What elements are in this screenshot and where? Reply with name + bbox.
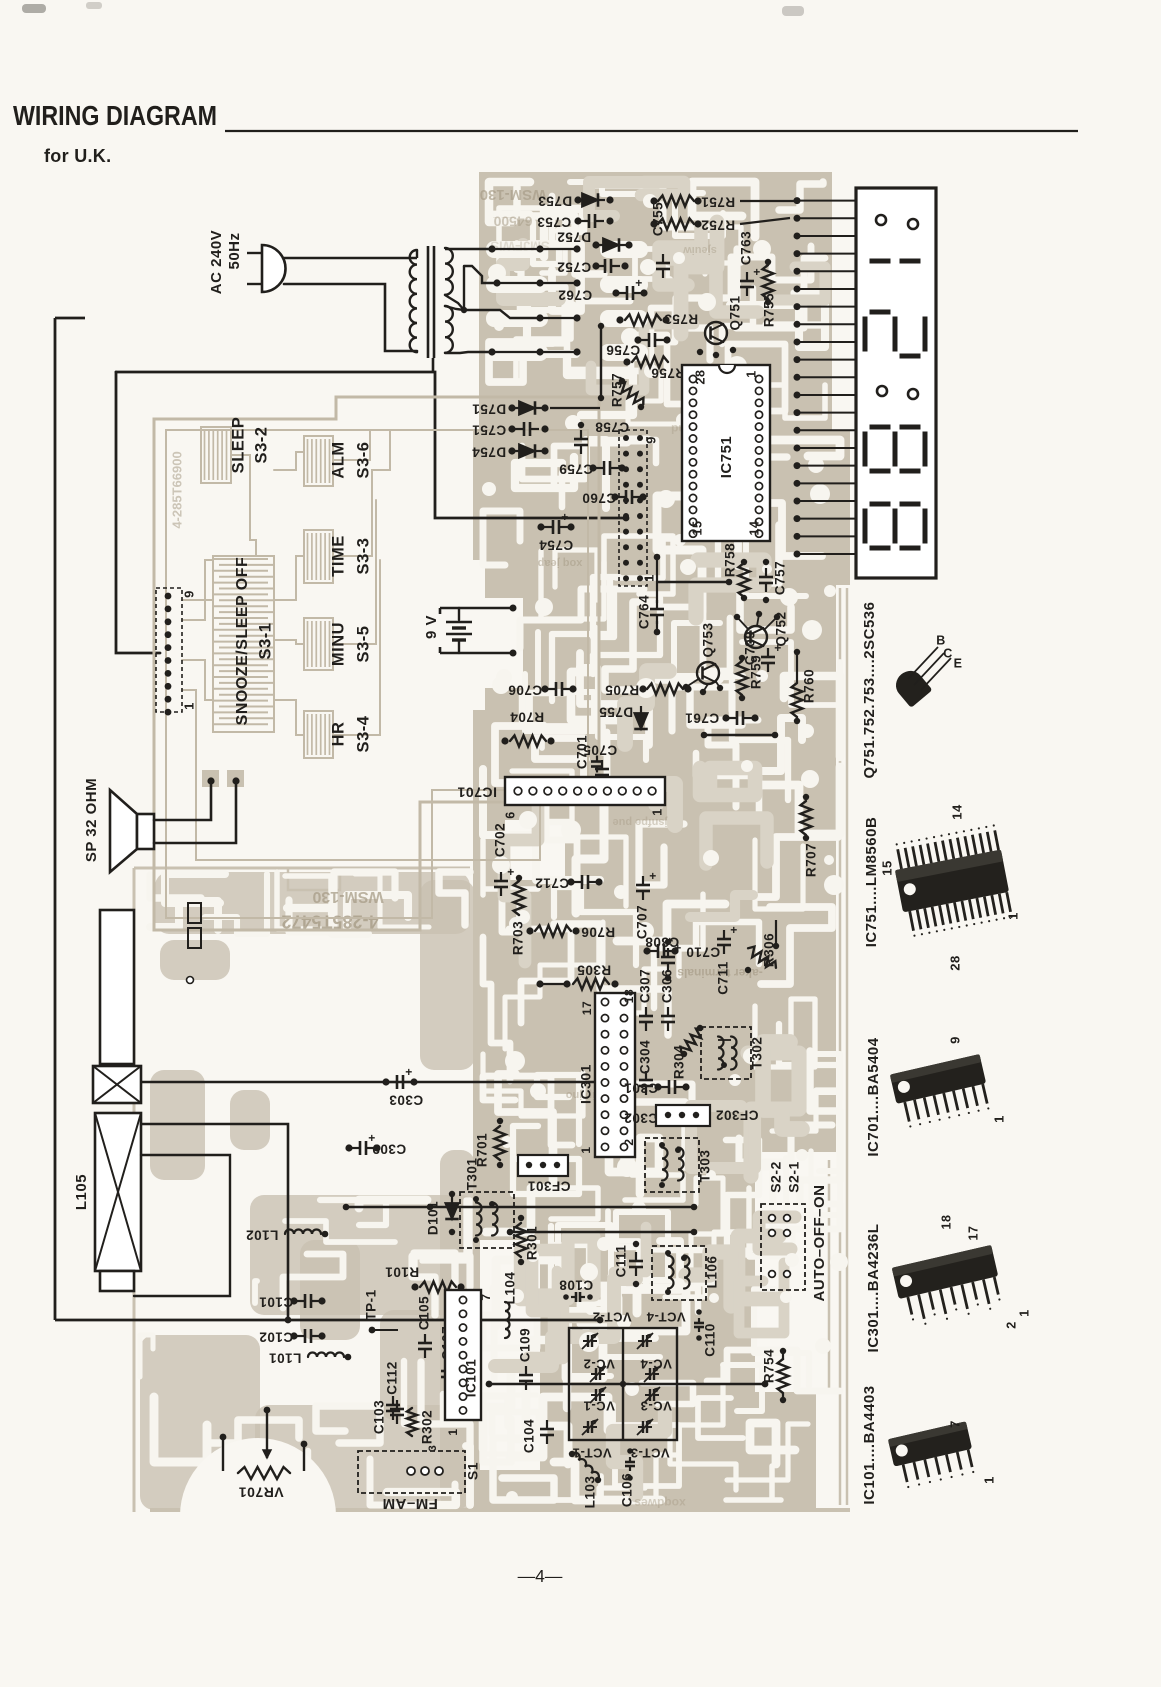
svg-text:+: + [635,276,643,290]
svg-text:Q753: Q753 [701,622,716,657]
svg-text:C705: C705 [583,742,617,757]
svg-text:C712: C712 [535,875,569,890]
svg-text:+: + [561,510,569,524]
svg-text:R302: R302 [420,1410,435,1444]
svg-text:FM–AM: FM–AM [382,1495,438,1512]
svg-text:1: 1 [981,1476,996,1484]
svg-text:S3-5: S3-5 [354,626,372,663]
svg-text:28: 28 [693,370,707,385]
svg-text:1: 1 [446,1428,460,1435]
svg-text:C304: C304 [638,1040,653,1074]
svg-text:L102: L102 [246,1227,279,1242]
svg-text:S3-4: S3-4 [354,715,372,752]
svg-text:C753: C753 [537,214,571,229]
svg-text:C711: C711 [716,961,731,995]
svg-text:2: 2 [1004,1321,1018,1328]
svg-text:R706: R706 [581,924,615,939]
svg-text:+: + [730,923,738,937]
svg-text:1: 1 [181,702,196,710]
svg-text:C752: C752 [557,259,591,274]
svg-text:for U.K.: for U.K. [44,146,111,166]
svg-text:L101: L101 [269,1350,302,1365]
svg-text:C761: C761 [685,710,719,725]
svg-text:1: 1 [1005,912,1020,920]
svg-text:T301: T301 [465,1158,480,1191]
svg-text:VCT-4: VCT-4 [646,1310,686,1325]
svg-text:TP-1: TP-1 [364,1289,379,1320]
svg-text:R705: R705 [605,682,639,697]
svg-text:9: 9 [643,436,658,444]
svg-text:7: 7 [947,1420,962,1428]
svg-text:MINU: MINU [329,622,347,666]
svg-text:C102: C102 [259,1329,293,1344]
svg-text:R755: R755 [762,293,777,327]
svg-text:14: 14 [949,804,964,820]
svg-text:C111: C111 [614,1245,629,1278]
svg-text:1: 1 [991,1115,1006,1123]
svg-text:15: 15 [879,860,894,875]
svg-text:S3-1: S3-1 [256,623,274,660]
svg-text:C757: C757 [773,561,788,595]
svg-text:2: 2 [622,1138,636,1145]
svg-text:VR701: VR701 [238,1484,283,1500]
svg-text:C751: C751 [472,422,506,437]
svg-text:xoqdwes: xoqdwes [634,1496,686,1510]
svg-text:VC-4: VC-4 [640,1357,672,1372]
svg-text:T302: T302 [750,1037,765,1070]
svg-text:C710: C710 [686,944,720,959]
svg-text:17: 17 [966,1226,980,1241]
svg-text:R751: R751 [701,194,735,209]
svg-text:C306: C306 [660,969,675,1003]
svg-text:C110: C110 [703,1323,718,1357]
svg-text:S2-2: S2-2 [768,1161,784,1193]
svg-text:D753: D753 [538,193,572,208]
svg-text:IC701....BA5404: IC701....BA5404 [865,1037,882,1156]
svg-text:+: + [649,869,657,883]
svg-text:64500: 64500 [493,213,532,229]
svg-text:+: + [368,1131,376,1145]
svg-text:C105: C105 [417,1296,432,1330]
svg-text:B: B [936,633,946,647]
svg-text:ALM: ALM [329,441,347,478]
svg-text:VC-3: VC-3 [640,1399,672,1414]
svg-text:R304: R304 [672,1045,687,1079]
svg-text:T303: T303 [698,1150,713,1183]
svg-text:C101: C101 [259,1294,293,1309]
svg-text:SNOOZE/SLEEP OFF: SNOOZE/SLEEP OFF [234,557,251,726]
svg-text:C303: C303 [389,1092,423,1107]
svg-text:S1: S1 [465,1462,481,1480]
svg-text:SLEEP: SLEEP [229,417,247,474]
svg-text:+: + [753,265,761,279]
svg-text:S2-1: S2-1 [786,1161,802,1193]
svg-text:R101: R101 [385,1264,419,1279]
svg-text:HR: HR [329,722,347,747]
svg-text:IC301....BA4236L: IC301....BA4236L [865,1224,882,1353]
svg-text:18: 18 [939,1215,953,1230]
svg-text:28: 28 [947,955,962,970]
svg-text:IC751: IC751 [718,436,735,479]
svg-text:9: 9 [181,590,196,598]
svg-text:+: + [507,865,515,879]
svg-text:C758: C758 [595,419,629,434]
svg-text:WSM-130: WSM-130 [312,888,383,905]
svg-text:1: 1 [1017,1309,1031,1316]
svg-text:S3-3: S3-3 [354,538,372,575]
svg-text:sjeuiw: sjeuiw [683,244,717,256]
svg-text:+: + [405,1065,413,1079]
svg-text:D755: D755 [599,704,633,719]
svg-text:7: 7 [479,1293,493,1300]
svg-text:C702: C702 [493,823,508,857]
svg-text:R754: R754 [762,1349,777,1383]
svg-text:D751: D751 [472,401,506,416]
svg-text:WIRING DIAGRAM: WIRING DIAGRAM [13,100,217,131]
svg-text:1: 1 [744,370,758,377]
svg-text:S3-6: S3-6 [354,442,372,479]
svg-text:Q751.752.753....2SC536: Q751.752.753....2SC536 [861,602,878,779]
svg-text:R305: R305 [577,962,611,977]
svg-text:C707: C707 [635,905,650,939]
svg-text:R752: R752 [701,217,735,232]
svg-text:D752: D752 [557,229,591,244]
svg-text:xoq jeap: xoq jeap [537,557,582,569]
svg-text:C112: C112 [385,1361,400,1395]
svg-text:C764: C764 [637,595,652,629]
svg-text:CF301: CF301 [527,1178,570,1193]
svg-text:R707: R707 [804,843,819,877]
svg-text:C762: C762 [558,287,592,302]
svg-text:S3-2: S3-2 [252,427,270,464]
svg-text:VCT-2: VCT-2 [592,1310,631,1325]
svg-text:15: 15 [690,521,704,536]
svg-text:WSM-130: WSM-130 [480,186,547,203]
svg-text:C763: C763 [739,231,754,265]
svg-text:C301: C301 [624,1080,658,1095]
svg-text:50Hz: 50Hz [226,232,243,269]
svg-text:C706: C706 [508,682,542,697]
svg-text:R703: R703 [511,921,526,955]
svg-text:6: 6 [503,811,517,818]
svg-text:9: 9 [947,1036,962,1044]
svg-text:E: E [954,656,963,670]
svg-text:C760: C760 [582,490,616,505]
svg-text:17: 17 [580,1001,594,1015]
svg-text:jsnfpe pue: jsnfpe pue [612,816,668,828]
svg-text:CF302: CF302 [715,1107,758,1122]
svg-text:C108: C108 [559,1277,593,1292]
svg-text:C103: C103 [372,1400,387,1434]
svg-text:R760: R760 [802,669,817,703]
svg-text:C: C [943,646,953,660]
svg-text:C754: C754 [539,537,573,552]
svg-text:1: 1 [650,808,664,815]
svg-text:R758: R758 [723,543,738,577]
svg-text:IC101....BA4403: IC101....BA4403 [861,1385,878,1504]
svg-text:IC701: IC701 [457,784,497,800]
svg-text:18: 18 [622,989,636,1003]
svg-text:C302: C302 [624,1110,658,1125]
svg-text:VC-2: VC-2 [583,1357,615,1372]
svg-text:4-285T66900: 4-285T66900 [169,451,184,528]
svg-text:R756: R756 [651,365,685,380]
svg-text:1: 1 [641,574,656,582]
svg-text:C104: C104 [522,1419,537,1453]
svg-text:AUTO–OFF–ON: AUTO–OFF–ON [811,1185,828,1302]
svg-text:IC301: IC301 [578,1064,594,1104]
svg-text:VCT-3: VCT-3 [630,1446,669,1461]
svg-text:IC101: IC101 [464,1359,479,1398]
svg-text:Q751: Q751 [728,295,743,330]
svg-text:L104: L104 [503,1272,518,1305]
svg-text:VC-1: VC-1 [583,1399,615,1414]
svg-text:TIME: TIME [329,535,347,576]
svg-text:14: 14 [747,521,761,536]
svg-text:R704: R704 [510,709,544,724]
svg-text:+: + [674,941,682,955]
svg-text:AC 240V: AC 240V [208,230,225,294]
svg-text:D754: D754 [472,444,506,459]
svg-text:C709: C709 [743,631,758,665]
svg-text:L106: L106 [705,1256,720,1289]
svg-text:9 V: 9 V [423,615,440,639]
svg-text:C759: C759 [559,461,593,476]
svg-text:—4—: —4— [518,1566,563,1586]
svg-text:C109: C109 [518,1328,533,1362]
svg-text:C756: C756 [606,342,640,357]
svg-text:SP 32 OHM: SP 32 OHM [83,778,100,862]
svg-text:IC751....LM8560B: IC751....LM8560B [863,817,880,948]
svg-text:+: + [774,641,782,655]
svg-text:4-285T5472: 4-285T5472 [281,911,378,931]
svg-text:1: 1 [579,1146,593,1153]
svg-text:C307: C307 [638,969,653,1003]
svg-text:L105: L105 [73,1174,90,1210]
